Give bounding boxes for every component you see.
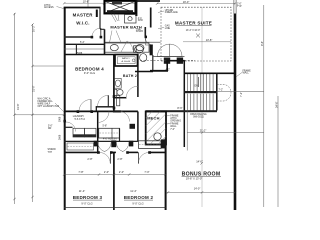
svg-text:BATH 2: BATH 2 bbox=[123, 74, 137, 78]
bedroom4 door arc bbox=[79, 99, 91, 111]
svg-text:19'-8" X 13'-0": 19'-8" X 13'-0" bbox=[186, 177, 202, 181]
closet jamb blocks bbox=[94, 141, 98, 147]
stair rail dark band bbox=[146, 110, 218, 112]
bath2 door arc bbox=[126, 86, 138, 98]
label BONUS ROOM bbox=[182, 172, 222, 181]
wall hall horizontal bbox=[150, 70, 168, 72]
pocket cavity bbox=[117, 96, 120, 106]
svg-text:10'-8": 10'-8" bbox=[83, 0, 90, 4]
svg-text:4'-2": 4'-2" bbox=[166, 70, 171, 72]
svg-text:BEDROOM 3: BEDROOM 3 bbox=[73, 195, 103, 200]
left dimension line 2 bbox=[32, 24, 34, 202]
svg-text:9'-0" CLG: 9'-0" CLG bbox=[81, 201, 92, 205]
linen closet bbox=[99, 128, 120, 138]
bedroom4 bottom wall bbox=[64, 110, 138, 112]
svg-text:5'-8": 5'-8" bbox=[103, 126, 108, 128]
WC door arc bbox=[145, 38, 153, 46]
svg-text:9'-6": 9'-6" bbox=[260, 41, 264, 46]
dim slash ticks top bbox=[63, 2, 236, 5]
svg-text:FIREPLACE: FIREPLACE bbox=[165, 11, 178, 14]
label BEDROOM 2 bbox=[124, 195, 154, 205]
svg-text:14'-0": 14'-0" bbox=[194, 187, 201, 191]
svg-text:BEDROOM 2: BEDROOM 2 bbox=[124, 195, 154, 200]
bedroom4 top wall bbox=[64, 54, 114, 56]
master toilet bbox=[134, 46, 144, 53]
label leaders bbox=[110, 31, 122, 43]
hall wall WC bottom bbox=[135, 71, 153, 73]
wall stair top to exterior bbox=[184, 72, 236, 74]
svg-text:5068: 5068 bbox=[60, 116, 62, 122]
door jamb block right bbox=[177, 58, 183, 64]
top dim line over master suite bbox=[157, 3, 235, 5]
svg-text:21'-2": 21'-2" bbox=[200, 128, 207, 132]
wall bath2 right bbox=[137, 54, 139, 97]
bath2 bottom wall bbox=[114, 97, 127, 99]
bonus dim line bottom bbox=[166, 191, 235, 193]
svg-text:TYP: TYP bbox=[48, 152, 53, 154]
master closet double doors sill bbox=[153, 56, 185, 58]
bath door swing bbox=[121, 41, 133, 52]
svg-text:DRY: DRY bbox=[88, 136, 93, 138]
label MASTER SUITE bbox=[175, 20, 212, 32]
hall door arc top bbox=[98, 111, 109, 122]
window dim line bed4 bbox=[33, 65, 65, 67]
wall stub left of tub bbox=[96, 10, 98, 18]
svg-text:WALL: WALL bbox=[170, 125, 177, 128]
svg-text:SHWR: SHWR bbox=[136, 31, 143, 33]
door leaf WIC bbox=[100, 28, 102, 38]
door jamb block left bbox=[164, 58, 170, 64]
extension line top bbox=[87, 0, 89, 7]
laundry wall stub bbox=[64, 126, 73, 128]
hall dark corner bbox=[113, 110, 121, 112]
stair dashed return bbox=[217, 84, 231, 101]
linen dashes bbox=[100, 132, 119, 134]
wall bed3 bed2 bbox=[113, 152, 115, 210]
svg-text:WH. CIRC A: WH. CIRC A bbox=[38, 97, 51, 100]
svg-text:MECH: MECH bbox=[147, 116, 159, 121]
hall wall vertical x119.5 bbox=[119, 128, 121, 141]
svg-text:2668: 2668 bbox=[60, 134, 62, 140]
wall hall vertical bbox=[166, 61, 168, 72]
svg-text:(W6-3012): (W6-3012) bbox=[193, 116, 204, 118]
stairwell west wall bbox=[183, 61, 185, 148]
stair treads lower bbox=[188, 94, 214, 111]
linen hall walls bbox=[64, 43, 105, 45]
stairwell east wall bbox=[216, 73, 218, 110]
master suite tray ceiling dashed bbox=[161, 7, 231, 61]
closet door arcs bed2 bbox=[116, 142, 129, 152]
svg-text:WALL: WALL bbox=[243, 72, 250, 75]
sink right bbox=[136, 45, 144, 51]
dim line bottom bedrooms bbox=[64, 174, 166, 176]
wall WIC top bbox=[64, 7, 101, 9]
stairwell lower wall line bbox=[186, 111, 188, 151]
master closet door arcs opening up bbox=[157, 44, 182, 56]
svg-text:LINE: LINE bbox=[165, 28, 171, 30]
svg-text:OPEN RAILING: OPEN RAILING bbox=[190, 113, 207, 116]
wall bed4 bath2 bbox=[113, 54, 115, 112]
svg-text:34'-6": 34'-6" bbox=[274, 101, 278, 108]
svg-text:2'-8": 2'-8" bbox=[87, 157, 92, 161]
bedrooms top wall bbox=[64, 151, 166, 153]
bath2 vanity bbox=[114, 78, 121, 88]
hall jog wall bbox=[96, 106, 114, 108]
svg-text:4'-0" RD&SH: 4'-0" RD&SH bbox=[103, 138, 117, 140]
svg-text:SHR: SHR bbox=[138, 20, 143, 22]
svg-text:ACCESS: ACCESS bbox=[44, 6, 54, 9]
svg-text:A. 60x30: A. 60x30 bbox=[121, 60, 130, 63]
laundry wall right bbox=[97, 112, 99, 152]
bed2 door arc bbox=[138, 152, 149, 163]
stair treads upper bbox=[188, 74, 214, 91]
bed2 closet box bbox=[139, 141, 162, 149]
tub faucet bbox=[132, 59, 135, 62]
svg-text:5'-6 X 5'-0: 5'-6 X 5'-0 bbox=[75, 119, 86, 121]
svg-text:9'-0" CLG: 9'-0" CLG bbox=[132, 201, 143, 205]
wall WIC right bbox=[99, 7, 101, 29]
svg-text:7'-0": 7'-0" bbox=[144, 170, 149, 174]
sink left bbox=[110, 45, 118, 51]
stair landing dark bbox=[184, 91, 217, 93]
svg-text:WASH: WASH bbox=[76, 135, 82, 138]
WC fixture small bbox=[140, 54, 147, 62]
svg-text:7'-0": 7'-0" bbox=[170, 129, 175, 131]
label BEDROOM 3 bbox=[73, 195, 103, 205]
WC walls bbox=[144, 27, 146, 38]
counter top edge bbox=[105, 41, 161, 43]
dim 21'-2 bbox=[187, 132, 264, 134]
ceiling break line vertical x202 bbox=[201, 7, 203, 207]
vanity counter bbox=[105, 43, 150, 52]
right dim 7'-2 bbox=[217, 90, 264, 92]
svg-text:13'-8": 13'-8" bbox=[206, 38, 213, 42]
svg-text:41'-6": 41'-6" bbox=[16, 103, 20, 110]
shower note marks bbox=[111, 14, 119, 23]
shower stall bbox=[125, 15, 137, 24]
closet dark wall right bbox=[161, 139, 166, 148]
svg-text:FRAME: FRAME bbox=[170, 122, 179, 125]
wall bath left bbox=[104, 29, 106, 54]
svg-text:13'-4" X 16'-0": 13'-4" X 16'-0" bbox=[186, 30, 201, 32]
dim ticks bbox=[63, 173, 167, 175]
wall WIC to bath stub bbox=[100, 28, 105, 30]
svg-text:8'-6": 8'-6" bbox=[177, 106, 182, 110]
wall right of tub box bbox=[135, 0, 137, 16]
svg-text:14'-0": 14'-0" bbox=[196, 159, 203, 163]
svg-text:DR: DR bbox=[48, 128, 52, 130]
wall bath top right bbox=[136, 0, 160, 2]
svg-text:10'-2": 10'-2" bbox=[32, 25, 36, 32]
MECH room bbox=[146, 112, 166, 145]
wall closet top bbox=[167, 60, 185, 62]
svg-text:TYP: TYP bbox=[237, 6, 242, 8]
linen divider bbox=[111, 128, 113, 138]
bedroom closet header wall bbox=[64, 140, 138, 142]
laundry door arc bbox=[66, 122, 76, 132]
bath2 toilet bbox=[114, 89, 123, 95]
svg-text:DN: DN bbox=[195, 86, 199, 88]
bottom sill line bbox=[64, 207, 166, 209]
left dim line horizontal bbox=[15, 114, 65, 116]
window right wall top bbox=[234, 0, 236, 14]
svg-text:BEDROOM 4: BEDROOM 4 bbox=[75, 67, 104, 72]
bath2 tub bbox=[115, 55, 138, 67]
svg-text:19'-0": 19'-0" bbox=[183, 0, 190, 4]
hall door leaf and arc bbox=[107, 95, 109, 107]
svg-text:FRAME: FRAME bbox=[170, 114, 179, 117]
bed3 door arc bbox=[99, 152, 110, 163]
svg-text:BATH 1: BATH 1 bbox=[122, 57, 130, 60]
washer dryer label band bbox=[73, 134, 96, 137]
top dim line over WIC bbox=[64, 2, 136, 4]
stair DN arrow bbox=[198, 77, 200, 87]
svg-text:ATTIC: ATTIC bbox=[170, 117, 177, 120]
svg-text:MASTER: MASTER bbox=[73, 12, 94, 17]
hall wall x138 upper bbox=[137, 112, 139, 142]
wall WC right vertical bbox=[152, 55, 154, 72]
svg-text:FRAMED WLL: FRAMED WLL bbox=[38, 100, 54, 103]
exterior wall left bbox=[64, 7, 66, 210]
svg-text:LAUNDRY: LAUNDRY bbox=[73, 115, 85, 118]
closet door arcs bed3 bbox=[98, 142, 111, 152]
svg-text:2'-0": 2'-0" bbox=[119, 170, 124, 174]
suite interior dim line 13'-8 bbox=[183, 41, 231, 43]
hall jamb block bbox=[130, 124, 136, 129]
wall bath east upper bbox=[150, 8, 152, 28]
svg-text:5'-4": 5'-4" bbox=[80, 42, 85, 44]
svg-text:MASTER SUITE: MASTER SUITE bbox=[175, 20, 212, 25]
door arc WIC bbox=[92, 28, 101, 37]
dashed header line hall bbox=[140, 59, 195, 61]
right dimension line 1 bbox=[263, 5, 265, 207]
right dimension line 2 bbox=[277, 96, 279, 207]
svg-text:7'-2": 7'-2" bbox=[219, 89, 224, 91]
svg-text:11'-4": 11'-4" bbox=[130, 189, 136, 193]
left dimension line 1 bbox=[14, 13, 16, 204]
door jamb blocks various bbox=[63, 36, 151, 154]
hall linen door arc bbox=[120, 112, 130, 122]
bonus room left wall bbox=[165, 139, 167, 211]
svg-text:31'-0": 31'-0" bbox=[32, 85, 36, 92]
svg-text:11'-4": 11'-4" bbox=[79, 189, 85, 193]
svg-text:9'-0" CLG: 9'-0" CLG bbox=[84, 71, 95, 75]
svg-text:2'-8": 2'-8" bbox=[117, 157, 122, 161]
svg-text:7'-8": 7'-8" bbox=[78, 170, 83, 174]
wall WIC bottom bbox=[64, 36, 92, 38]
bedroom4 door leaf bbox=[90, 99, 92, 111]
svg-text:7'-2": 7'-2" bbox=[239, 92, 243, 97]
svg-text:OPT LAUNDRY PLB: OPT LAUNDRY PLB bbox=[38, 105, 60, 108]
WC wall stub dark bbox=[150, 45, 153, 56]
washer dryer bbox=[73, 128, 96, 137]
ceiling fan mark bbox=[196, 34, 200, 38]
exterior wall right bbox=[234, 14, 237, 211]
svg-text:W.I.C.: W.I.C. bbox=[76, 21, 89, 26]
left dim slash ticks bbox=[13, 13, 33, 200]
bed3 closet shelf bbox=[67, 143, 94, 150]
master tub black box bbox=[105, 1, 136, 14]
svg-text:2'-0": 2'-0" bbox=[104, 170, 109, 174]
svg-text:OPENING: OPENING bbox=[170, 121, 181, 123]
